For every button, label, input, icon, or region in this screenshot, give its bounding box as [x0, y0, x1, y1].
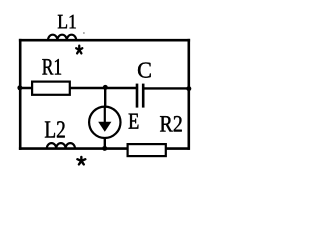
resistor R1 — [32, 82, 70, 95]
inductor L1 — [48, 35, 76, 41]
source E arrow head — [98, 122, 111, 132]
label L1 — [58, 15, 76, 28]
inductor L2 — [47, 143, 75, 149]
stray dot — [83, 32, 85, 34]
label C — [138, 63, 151, 78]
wire: outer loop bottom edge — [19, 147, 190, 150]
wire: outer loop left edge — [19, 39, 22, 150]
junction node on middle wire at E stub — [103, 85, 108, 90]
wire: middle row right segment — [144, 87, 189, 89]
capacitor C right plate — [142, 84, 145, 108]
wire: outer loop right edge — [188, 39, 191, 150]
label E — [129, 114, 139, 129]
label R2 — [160, 116, 182, 132]
source E circle — [89, 107, 120, 138]
label R1 — [42, 59, 61, 75]
capacitor C left plate — [136, 84, 139, 108]
junction node middle wire at right edge — [186, 86, 191, 91]
source E arrow shaft — [104, 107, 106, 124]
wire: middle row left segment — [19, 87, 136, 89]
wire: stub from source E down to bottom wire — [104, 137, 106, 149]
label L2 — [45, 121, 65, 137]
polarity mark * for L2 — [77, 157, 85, 165]
junction node on bottom wire below E — [102, 146, 107, 151]
junction node middle wire at left edge — [17, 85, 22, 90]
wire: stub from middle wire down to source E — [104, 87, 106, 108]
wire: outer loop top edge — [19, 39, 190, 42]
resistor R2 — [128, 144, 166, 156]
polarity mark * for L1 — [76, 46, 82, 54]
